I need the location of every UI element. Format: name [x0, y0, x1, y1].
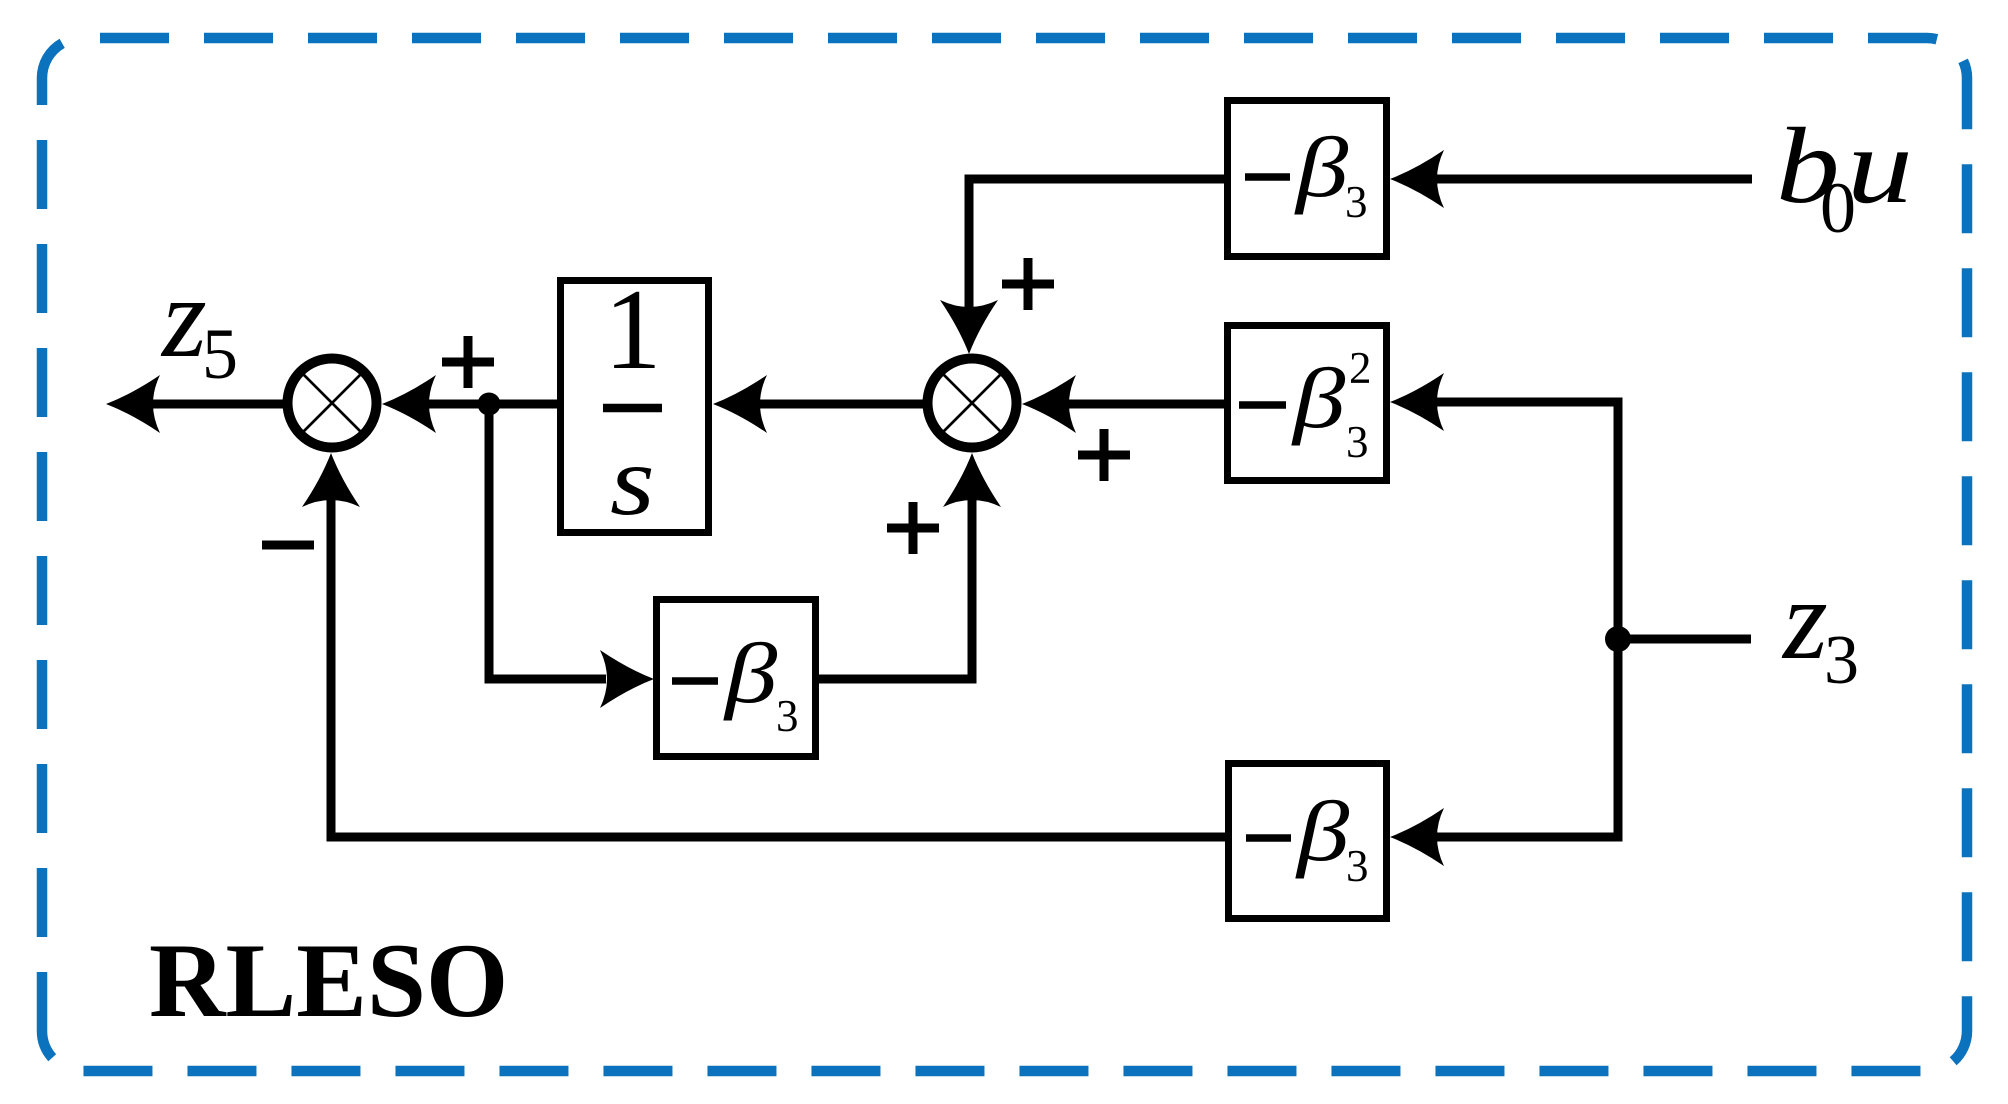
- svg-text:2: 2: [1349, 343, 1372, 393]
- svg-text:3: 3: [1346, 841, 1369, 891]
- svg-text:3: 3: [1824, 622, 1859, 699]
- svg-text:z: z: [160, 254, 207, 381]
- svg-text:3: 3: [1346, 417, 1369, 467]
- svg-text:z: z: [1781, 556, 1828, 683]
- svg-text:u: u: [1847, 107, 1913, 226]
- svg-text:1: 1: [604, 266, 662, 393]
- svg-text:β: β: [1291, 351, 1346, 446]
- svg-text:β: β: [1295, 784, 1350, 879]
- svg-text:5: 5: [202, 314, 238, 394]
- svg-text:β: β: [1294, 120, 1349, 215]
- svg-text:3: 3: [776, 691, 799, 741]
- svg-text:3: 3: [1345, 177, 1368, 227]
- svg-text:β: β: [723, 626, 778, 721]
- svg-text:RLESO: RLESO: [149, 922, 508, 1039]
- svg-text:s: s: [610, 426, 655, 536]
